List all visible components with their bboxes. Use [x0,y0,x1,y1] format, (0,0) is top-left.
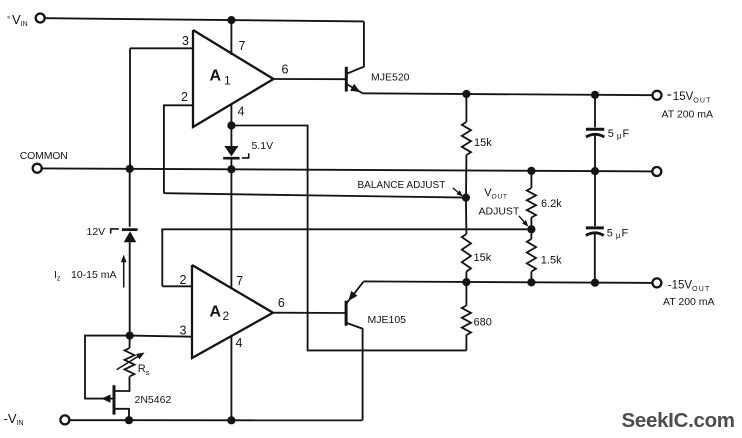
svg-text:680: 680 [474,316,492,328]
svg-text:7: 7 [236,274,243,288]
svg-text:15k: 15k [474,137,492,149]
label 15Vout [667,91,711,105]
wire A1 pin3 riser [129,48,131,169]
label 15k (R1) [474,137,492,149]
label AT 200 mA (top) [662,109,714,121]
arrow balance adjust [453,188,463,197]
node +15 rail / R1 [462,90,470,98]
pin 2 label A2 [180,273,187,287]
pin 6 label A1 [282,63,289,77]
rheostat Rs [116,336,135,391]
transistor Q2 emitter [346,282,363,304]
jfet Q3 source lead [114,409,129,421]
capacitor C1 5uF [586,95,604,171]
label 2N5462 [135,394,172,406]
svg-text:6: 6 [278,296,285,310]
pin 4 label A2 [236,336,243,350]
label 680 [474,316,492,328]
label MJE520 [371,71,410,83]
terminal +15V out [653,91,662,100]
node A1 pin4 junction [227,121,235,129]
op-amp A1 [193,30,274,127]
node -15 rail / R2 R3 [462,278,470,286]
label Vout ADJUST [479,187,520,217]
svg-text:5.1V: 5.1V [252,140,274,152]
label 6.2k [541,198,562,210]
pin 7 label A2 [236,274,243,288]
wire Vout-adjust line (A2 pin2 to wiper) [162,229,531,286]
terminal -Vin [4,411,70,427]
wire +15V rail [362,93,652,95]
svg-text:15k: 15k [474,252,492,264]
terminal -15V out [652,278,661,287]
svg-text:1.5k: 1.5k [541,254,562,266]
label 5uF (C1) [608,128,630,141]
label 1.5k [541,254,562,266]
svg-text:A: A [210,68,222,85]
wire A1 pin3 stub [130,47,193,49]
transistor Q2 MJE105 base bar [345,301,348,326]
svg-text:A: A [210,304,222,321]
label 5uF (C2) [607,228,629,241]
svg-text:10-15 mA: 10-15 mA [71,269,117,281]
label 5.1V [252,140,274,152]
svg-text:MJE105: MJE105 [368,314,407,326]
resistor R3 680 [462,282,471,350]
node -Vin / JFET source [125,416,133,424]
wire A1 pin4 riser [230,105,232,126]
label MJE105 [368,314,407,326]
terminal COMMON out [652,167,661,176]
svg-text:12V: 12V [87,226,106,238]
capacitor C2 5uF [586,171,604,283]
svg-text:MJE520: MJE520 [371,71,410,83]
wire A2 pin4 riser [230,336,232,421]
svg-text:3: 3 [180,323,187,337]
node balance adjust [462,194,470,202]
label Iz 10-15 mA [54,269,117,283]
svg-text:2N5462: 2N5462 [135,394,172,406]
label 15k (R2) [474,252,492,264]
transistor Q1 emitter [347,84,363,93]
transistor Q1 collector [347,21,364,73]
jfet Q3 gate arrow [101,395,110,403]
arrow Rs wiper [117,353,145,370]
op-amp A2 [192,265,273,358]
svg-text:2: 2 [180,273,187,287]
transistor Q1 MJE520 base bar [345,67,348,92]
svg-text:6: 6 [282,63,289,77]
label BALANCE ADJUST [358,180,446,191]
transistor Q2 collector [346,323,362,420]
node Vout adjust [527,225,535,233]
label AT 200 mA (bottom) [663,296,715,308]
wire A2 pin7 riser [230,169,232,288]
svg-text:3: 3 [182,34,189,48]
wire A1 pin4 to R5 bottom [231,126,466,351]
node -15 rail / C2 [591,279,599,287]
wire COMMON to zener D2 [129,169,131,227]
label 12V [87,226,106,238]
terminal +Vin [7,12,44,28]
svg-text:AT 200 mA: AT 200 mA [663,296,715,308]
arrow Vout adjust [519,216,528,227]
svg-text:ADJUST: ADJUST [479,205,520,217]
wire balance line (A1 pin2 to wiper) [164,193,466,197]
node COMMON / C1 C2 [591,167,599,175]
node COMMON / zener D2 chain [126,165,134,173]
pin 7 label A1 [239,39,246,53]
jfet Q3 2N5462 channel [113,385,116,414]
label -15Vout [668,279,711,293]
terminal COMMON [20,150,68,173]
svg-text:1: 1 [224,74,231,88]
svg-text:AT 200 mA: AT 200 mA [662,109,714,121]
svg-text:7: 7 [239,39,246,53]
pin 4 label A1 [238,105,245,119]
resistor R1 15k [462,94,471,198]
wire A2 pin2 stub [162,285,192,287]
zener D2 12V [111,229,138,242]
wire A1 pin7 riser [230,20,232,55]
resistor R4 6.2k [527,171,536,230]
watermark SeekIC.com [622,409,735,432]
wire A2 output to Q2 base [273,312,345,314]
resistor R2 15k [462,198,471,283]
label Rs [138,363,150,377]
current arrow Iz [121,255,127,288]
pin 2 label A1 [181,90,188,104]
node -15 rail / R5 [527,278,535,286]
node COMMON / D1 / A2 pin7 [227,165,235,173]
wire COMMON rail [43,168,652,171]
wire zener D2 to node A [129,242,131,335]
node A (gate-Rs-zener junction) [126,332,134,340]
node top rail / A1 pin7 [227,16,235,24]
svg-text:COMMON: COMMON [20,150,68,162]
svg-text:4: 4 [236,336,243,350]
svg-text:6.2k: 6.2k [541,198,562,210]
wire A1 output to Q1 base [274,78,346,80]
svg-text:BALANCE ADJUST: BALANCE ADJUST [358,180,446,191]
wire -Vin rail [70,419,362,421]
zener D1 5.1V [223,126,249,170]
node +15 rail / C1 [591,91,599,99]
wire A2 pin3 stub [130,336,192,337]
svg-text:2: 2 [223,309,230,323]
svg-text:SeekIC.com: SeekIC.com [622,409,735,432]
svg-text:2: 2 [181,90,188,104]
pin 6 label A2 [278,296,285,310]
node COMMON / R4 6.2k [527,167,535,175]
wire -15V rail [364,281,652,283]
resistor R5 1.5k [527,229,536,282]
wire gate loop [85,336,130,399]
svg-text:4: 4 [238,105,245,119]
wire A1 pin2 stub [164,105,193,193]
pin 3 label A1 [182,34,189,48]
wire +Vin top rail [46,18,364,21]
pin 3 label A2 [180,323,187,337]
node -Vin / A2 pin4 [227,416,235,424]
